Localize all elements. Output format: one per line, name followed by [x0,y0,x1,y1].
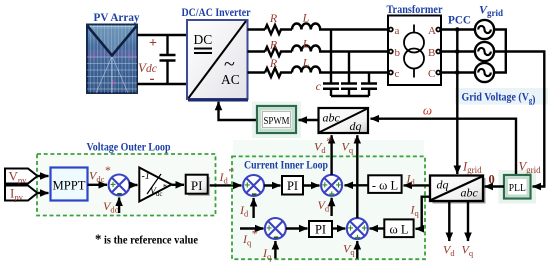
wire wL to S4 [370,227,385,229]
svg-text:c: c [395,68,400,80]
svg-text:+: + [348,224,354,235]
wire Ipv to MPPT [38,192,49,194]
wire PI2 to S4 [332,227,345,229]
node PCC C [455,70,460,75]
PI block 2 [309,221,332,237]
Current Inner Loop box [232,156,425,259]
svg-text:SPWM: SPWM [264,115,290,127]
summer S2 [321,175,342,201]
faint background tints [455,88,548,105]
resistor R phase A [265,25,292,34]
Vq* wire S4 up to abc-dq [356,135,358,218]
wire PI1 to S2 [303,184,320,186]
svg-text:ω: ω [423,103,432,118]
Voltage Outer Loop box [37,154,216,216]
wire dq to wL with Iq [416,197,431,229]
DC link bottom wire [137,83,187,85]
svg-text:a: a [395,25,400,37]
Vdc feedback stub [118,198,120,214]
Vpv tag [5,169,38,186]
PI block 1 [282,176,303,195]
transformer T1 [388,16,441,86]
svg-text:PLL: PLL [509,183,526,194]
svg-text:C: C [428,68,435,80]
filter capacitor tap C [368,73,370,83]
wire PLL to dq block theta [485,185,505,187]
phase B wire [248,50,266,52]
svg-text:L: L [302,56,310,70]
svg-text:* is the reference value: * is the reference value [95,233,198,248]
svg-text:PV Array: PV Array [94,10,140,24]
inverter U1 [187,20,248,100]
svg-text:Voltage Outer Loop: Voltage Outer Loop [87,140,171,154]
abc to dq block [319,108,369,133]
gain block -1/Vdc* [139,168,171,202]
svg-text:AC: AC [221,72,240,87]
svg-text:Current Inner Loop: Current Inner Loop [244,158,328,172]
svg-text:ω L: ω L [390,223,409,237]
wire S3 to PI2 [286,227,308,229]
svg-text:A: A [90,54,95,62]
svg-text:abc: abc [461,186,479,200]
Vq feedforward stub into S4 [356,241,358,259]
svg-text:+: + [336,180,342,191]
Vgrid sense wire to PLL [506,52,545,187]
node PCC B [455,49,460,54]
svg-text:PI: PI [191,178,203,193]
wL block [384,219,413,237]
Iq feedback stub into S3 [274,241,276,259]
capacitor star rail [331,95,369,97]
wire abc-dq to SPWM [299,119,319,121]
svg-text:+: + [266,224,272,235]
svg-text:PI: PI [287,179,298,193]
PLL block [504,175,531,199]
svg-text:A: A [127,54,132,62]
svg-text:- ω L: - ω L [372,179,398,193]
svg-text:+: + [149,36,157,51]
svg-text:PCC: PCC [448,13,471,27]
grid source C [475,63,494,82]
capacitor Cdc [160,35,176,84]
svg-text:Transformer: Transformer [387,2,444,16]
Vd feedforward stub into S2 [330,198,332,216]
filter capacitor tap B [348,52,350,83]
svg-text:DC/AC Inverter: DC/AC Inverter [182,5,252,19]
svg-text:dq: dq [350,119,362,133]
phase A wire [248,28,266,30]
source neutral conductor [494,30,506,73]
svg-text:DC: DC [194,32,213,47]
PCC bus / Igrid sense line [456,30,458,175]
PV array panel [87,25,137,94]
omega wire from PLL to abc-dq [371,119,517,174]
svg-text:L: L [302,37,310,51]
Id feedback stub into S1 [252,198,254,218]
svg-text:0: 0 [489,173,495,187]
resistor R phase B [265,47,292,56]
Iq* input wire [240,227,264,229]
filter capacitor B [341,84,357,97]
wire MPPT to summer [88,184,108,186]
svg-text:+: + [322,180,328,191]
dq to abc block [430,176,486,204]
svg-text:-: - [150,71,155,87]
svg-text:-1: -1 [142,171,150,182]
inductor L phase C [292,66,389,72]
summer SV [109,175,130,196]
phase C wire [248,71,266,73]
-wL block [368,175,401,193]
svg-text:R: R [269,11,278,25]
DC link top wire [137,34,187,36]
summer S1 [243,175,264,196]
inductor L phase B [292,45,389,51]
svg-text:A: A [428,25,436,37]
wire gain to PI [172,184,184,186]
wire A to PCC bus [440,28,475,30]
filter capacitor C [361,84,377,97]
svg-text:+: + [361,224,367,235]
PI block voltage loop [186,175,210,196]
node PCC A [455,27,460,32]
svg-text:c: c [316,79,322,93]
summer S3 [265,218,286,239]
svg-text:dq: dq [437,178,449,192]
svg-text:+: + [110,78,116,89]
gate drive arrow into inverter [219,102,258,120]
svg-text:MPPT: MPPT [53,178,86,193]
MPPT block [51,168,88,201]
svg-text:PI: PI [315,223,326,237]
Vd* wire S2 up to abc-dq [330,135,332,175]
svg-text:+: + [244,181,250,192]
wire C to PCC bus [440,71,475,73]
Vd output arrow [448,201,450,241]
wire PI to S1 with Id* [210,184,242,186]
svg-text:+: + [110,180,116,191]
inductor L phase A [292,23,389,29]
SPWM block [257,106,296,133]
grid source B [475,42,494,61]
svg-text:abc: abc [323,111,341,125]
Ipv tag [5,186,38,203]
svg-text:B: B [428,47,435,59]
svg-text:L: L [302,11,310,25]
resistor R phase C [265,68,292,77]
wire dq to -wL with Id [404,184,431,186]
wire S1 to PI1 [264,184,280,186]
filter capacitor tap A [330,30,332,83]
Vq output arrow [467,201,469,241]
grid source A [475,20,494,39]
svg-text:b: b [395,47,401,59]
svg-text:R: R [269,56,278,70]
filter capacitor A [323,84,339,97]
wire -wL to S2 [345,184,369,186]
wire Vpv to MPPT [38,175,49,177]
wire summer to gain [130,184,138,186]
summer S4 [347,218,368,244]
wire B to PCC bus [440,50,475,52]
svg-text:R: R [269,38,278,52]
